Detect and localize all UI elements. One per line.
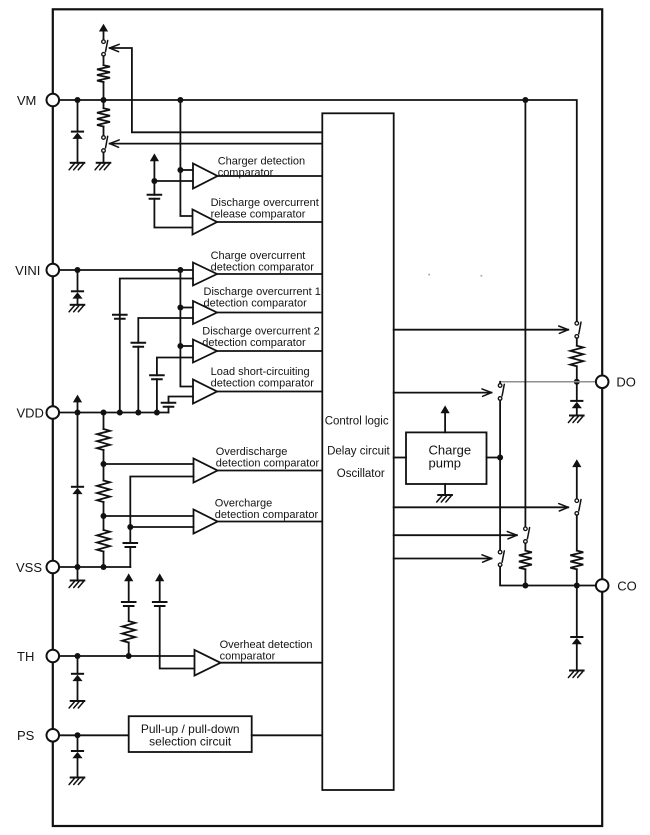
op-amp discharge overcurrent 1 detection comparator (193, 301, 217, 324)
ground at VSS (71, 580, 85, 582)
control wire to S2 with arrowhead (110, 140, 120, 147)
wire S2 to ground (103, 152, 105, 162)
op-amp load short-circuiting detection comparator (193, 380, 217, 404)
junction VM-CO column (522, 97, 528, 103)
junction VDD-cap C3 (135, 410, 141, 416)
op-amp discharge overcurrent 2 detection comparator (193, 340, 217, 363)
wire VM column down to S6 (524, 100, 526, 527)
svg-text:Delay circuit: Delay circuit (327, 446, 390, 458)
junction feed discharge2 + input (177, 343, 183, 349)
switch S7 (CO high-side) (575, 499, 579, 503)
capacitor C2 chain to charge overcurrent - input (119, 315, 121, 413)
wire VDD to diode D3 (77, 413, 79, 487)
wire divider tap2 to overcharge + input (104, 515, 194, 517)
capacitor C3 chain to discharge 1 - input (137, 347, 139, 413)
resistor R2 (97, 108, 110, 126)
wire VSS to ground (77, 567, 79, 581)
switch S1 (VM pull-up) (102, 40, 106, 44)
junction VDD-divider (101, 410, 107, 416)
ground below D6 (570, 415, 584, 417)
junction charge pump output (497, 455, 503, 461)
junction TH-diode (75, 653, 81, 659)
ground below D7 (570, 670, 584, 672)
wire VM net horizontal (53, 100, 577, 322)
capacitor C7 (TH chain) (122, 602, 136, 606)
op-amp charge overcurrent detection comparator (193, 263, 217, 286)
VDD arrow above S7 (572, 459, 581, 467)
svg-text:Load short-circuiting: Load short-circuiting (211, 366, 310, 378)
wire R2 to S2 (103, 127, 105, 136)
wire VM feed down to comparators (180, 100, 193, 216)
junction overcharge - branch (127, 524, 133, 530)
pull-up / pull-down selection circuit box (129, 716, 252, 752)
wire S7 to R9 (576, 515, 578, 550)
svg-text:VSS: VSS (16, 560, 42, 575)
pin VM (47, 94, 60, 107)
resistor R8 (CO mid pull) (519, 551, 532, 570)
junction cap chain / comparator - input (151, 178, 157, 184)
junction VSS-divider (101, 564, 107, 570)
junction VM-divider (101, 97, 107, 103)
wire charger detection output (218, 175, 323, 177)
control wire to S3 (394, 329, 569, 331)
svg-text:pump: pump (429, 456, 462, 471)
switch S6 (VM-CO) (524, 527, 528, 531)
ground below S2 (97, 162, 111, 164)
svg-text:TH: TH (17, 649, 34, 664)
svg-text:comparator: comparator (220, 651, 276, 663)
op-amp charger detection comparator (193, 164, 218, 189)
wire PS net (53, 734, 129, 736)
op-amp discharge overcurrent release comparator (193, 210, 218, 235)
op-amp overcharge detection comparator (194, 510, 218, 534)
svg-text:Control logic: Control logic (325, 416, 389, 428)
ground below D1 (71, 162, 85, 164)
junction VDD-diode column (75, 410, 81, 416)
diode D3 (VDD-VSS clamp) (72, 486, 83, 488)
capacitor C4 chain to discharge 2 - input (156, 379, 158, 412)
wire TH to diode D4 (77, 656, 79, 674)
junction divider tap 1 (101, 461, 107, 467)
svg-text:PS: PS (17, 728, 35, 743)
control wire to S4 (394, 392, 492, 394)
junction feed to charger-detection + input (177, 167, 183, 173)
junction CO node (574, 583, 580, 589)
svg-text:detection comparator: detection comparator (204, 298, 308, 310)
svg-text:detection comparator: detection comparator (216, 457, 320, 469)
svg-text:detection comparator: detection comparator (211, 377, 315, 389)
wire DO net (gray) (500, 381, 602, 383)
junction DO node (574, 379, 580, 385)
capacitor C8 (overheat reference) (153, 602, 167, 606)
control wire to S7 (394, 506, 569, 508)
wire VDD net (53, 412, 169, 414)
svg-text:release comparator: release comparator (211, 208, 306, 220)
junction VDD-cap C2 (117, 410, 123, 416)
svg-text:Overheat detection: Overheat detection (220, 639, 313, 651)
junction feed discharge1 + input (177, 305, 183, 311)
diode D1 (VM clamp) (72, 131, 83, 133)
wire PS to diode D5 (77, 735, 79, 751)
svg-text:CO: CO (617, 578, 637, 593)
capacitor C5 chain to load short - input (168, 407, 170, 413)
wire VSS net (53, 566, 131, 568)
switch S4 (DO low-side) (499, 382, 501, 384)
diode D7 (CO clamp) (571, 636, 582, 638)
svg-text:Discharge overcurrent: Discharge overcurrent (211, 197, 319, 209)
svg-text:comparator: comparator (218, 167, 274, 179)
VDD arrow above switch S1 (99, 24, 108, 32)
pin PS (47, 729, 60, 742)
svg-text:VINI: VINI (15, 263, 40, 278)
wire divider tap1 to overdischarge + input (104, 463, 194, 465)
svg-text:Discharge overcurrent 1: Discharge overcurrent 1 (204, 286, 321, 298)
svg-text:detection comparator: detection comparator (202, 337, 306, 349)
resistor R9 (CO pull) (570, 551, 583, 570)
VDD arrow above overheat reference chain (155, 573, 164, 581)
resistor R7 (DO pull) (570, 346, 583, 367)
junction VM-feed (177, 97, 183, 103)
ground below D4 (71, 700, 85, 702)
wire VINI net (53, 269, 193, 271)
control wire to S5 (394, 558, 492, 560)
ground below D2 (71, 304, 85, 306)
wire overdischarge - input chain (130, 477, 193, 544)
capacitor C1 (VM reference) (148, 195, 162, 199)
wire selection circuit output (252, 734, 323, 736)
svg-text:Charge overcurrent: Charge overcurrent (211, 250, 306, 262)
wire charge pump output (487, 457, 501, 459)
wire charge pump node down to S5 (499, 458, 501, 551)
svg-text:Oscillator: Oscillator (337, 468, 385, 480)
svg-text:detection comparator: detection comparator (215, 509, 319, 521)
control wire to S1 with arrowhead (110, 44, 120, 51)
wire VM to R2 (103, 100, 105, 108)
resistor R5 (divider bottom) (97, 530, 110, 552)
junction VDD-cap C4 (154, 410, 160, 416)
svg-text:Overdischarge: Overdischarge (216, 446, 288, 458)
switch S2 (VM pull-down) (102, 136, 106, 140)
pin DO (596, 376, 609, 389)
resistor R3 (divider top) (103, 413, 105, 430)
resistor R1 (97, 65, 110, 82)
wire VINI feed down to comparators (180, 270, 193, 387)
wire VM to diode D1 (77, 100, 79, 132)
pin VDD (47, 406, 60, 419)
svg-text:VM: VM (17, 93, 37, 108)
svg-text:selection circuit: selection circuit (149, 735, 232, 749)
svg-text:detection comparator: detection comparator (211, 261, 315, 273)
junction TH-RC chain (126, 653, 132, 659)
svg-text:Discharge overcurrent 2: Discharge overcurrent 2 (202, 325, 319, 337)
junction divider tap 2 (101, 513, 107, 519)
VDD arrow marker (73, 395, 82, 403)
VDD arrow above TH cap-resistor chain (124, 573, 133, 581)
junction VINI-feed (177, 267, 183, 273)
VDD arrow above charge pump (441, 405, 450, 413)
junction PS-diode (75, 732, 81, 738)
pin CO (596, 579, 609, 592)
diode D4 (TH clamp) (72, 673, 83, 675)
control wire to S6 (394, 534, 517, 536)
svg-text:VDD: VDD (17, 405, 44, 420)
wire discharge release output (217, 221, 322, 223)
pin VINI (47, 264, 60, 277)
svg-text:Overcharge: Overcharge (215, 498, 272, 510)
charge pump box U2 (406, 432, 487, 484)
diode D5 (PS clamp) (72, 750, 83, 752)
switch S5 (CO low-side) (498, 550, 502, 554)
op-amp overheat detection comparator (195, 650, 221, 676)
op-amp overdischarge detection comparator (194, 459, 218, 483)
diode D6 (DO clamp) (571, 400, 582, 402)
wire S4 down to charge pump node (499, 400, 501, 457)
diode D2 (VINI clamp) (72, 290, 83, 292)
svg-text:DO: DO (616, 375, 636, 390)
wire charge pump ground lead (444, 484, 446, 495)
junction VINI-diode (75, 267, 81, 273)
wire VINI to diode D2 (77, 270, 79, 291)
wire S5 to CO line (500, 567, 602, 586)
wire S1 to R1 (103, 56, 105, 65)
junction VSS-diode column (75, 564, 81, 570)
pin TH (47, 650, 60, 663)
wire CO node to diode D7 (576, 586, 578, 638)
capacitor C6 (overcharge reference) (124, 543, 138, 547)
junction CO mid (522, 583, 528, 589)
wire S3 to R7 (576, 338, 578, 346)
ground below D5 (71, 777, 85, 779)
pin VSS (47, 561, 60, 574)
junction VM-diode (75, 97, 81, 103)
wire control block to charge pump (394, 457, 406, 459)
wire R1 to VM (103, 82, 105, 100)
resistor R4 (divider middle) (97, 481, 110, 503)
control logic block U1 (322, 113, 393, 790)
wire DO node to diode D6 (576, 382, 578, 401)
wire TH net (53, 655, 195, 657)
svg-text:Charger detection: Charger detection (218, 156, 305, 168)
resistor R6 (TH pull-up) (122, 621, 135, 642)
ground below charge pump (438, 494, 452, 496)
switch S3 (DO high-side) (575, 322, 579, 326)
wire S6 to R8 (524, 543, 526, 550)
VDD arrow above VM cap chain (150, 153, 159, 161)
